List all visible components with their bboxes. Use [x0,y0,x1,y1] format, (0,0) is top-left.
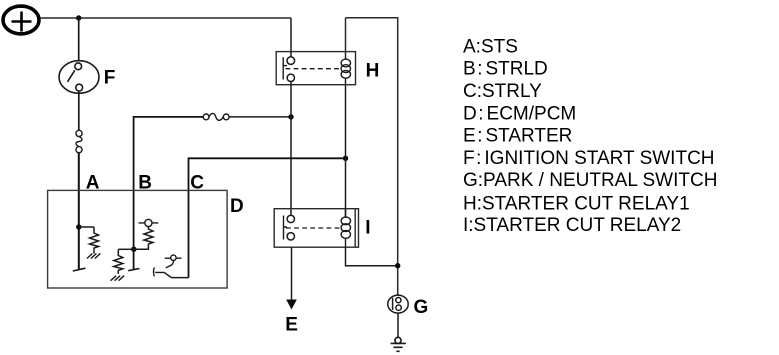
wire fuse to relay H contact wire [229,116,291,118]
park / neutral switch G [388,295,408,313]
resistor (pull-up on B) [134,227,153,250]
node junction coil return / right rail [395,263,400,268]
svg-text:E:STARTER: E:STARTER [463,125,572,146]
output transistor Q1 inside ECM [154,255,182,277]
relay H dashed link [286,68,341,70]
internal supply terminal circle on pull-up resistor [139,219,159,226]
resistor (pull-down on B) [114,249,123,274]
svg-text:E: E [285,315,298,336]
relay I coil [341,209,350,248]
legend text [463,37,717,236]
relay H contact circles [287,57,295,82]
svg-text:H:STARTER CUT RELAY1: H:STARTER CUT RELAY1 [463,194,690,215]
wire to starter E with arrowhead [291,247,293,299]
relay H coil [341,52,350,85]
node B junction inside ECM [131,247,136,252]
wire G to ground [397,313,399,337]
ground hatch under resistor A [87,254,101,259]
relay H armature [283,57,287,79]
node junction at battery rail / ignition switch [76,15,81,20]
wire battery to relay H contact (top rail) [40,17,292,19]
ignition start switch F [59,61,99,94]
starter cut relay2 I box [274,209,358,248]
relay I armature [284,216,288,240]
wire relay H contact bottom to relay I contact top [290,82,292,216]
wire junction A to resistor [79,226,94,228]
ground tick at bottom of wire B [128,269,139,271]
svg-text:A:STS: A:STS [463,37,518,58]
starter cut relay1 H box [276,52,355,85]
svg-text:H: H [366,61,380,82]
svg-text:G:PARK / NEUTRAL SWITCH: G:PARK / NEUTRAL SWITCH [463,170,717,191]
wire net B vertical with top corner to fuse [134,117,204,269]
svg-text:C:STRLY: C:STRLY [463,81,542,102]
svg-text:I:STARTER CUT RELAY2: I:STARTER CUT RELAY2 [463,215,681,236]
relay I dashed link [286,227,340,229]
wire relay I coil bottom to right rail [346,247,398,266]
ground terminal circle [395,337,401,343]
wire relay H coil bottom to relay I coil top [345,85,347,218]
resistor (pull-down on A) [90,227,99,254]
wire transistor to net C bottom [171,277,188,279]
svg-text:D: D [230,196,244,217]
wire junction down to ignition switch F [78,18,80,61]
wire top bracket to right rail [346,18,398,296]
node A junction inside ECM [76,224,81,229]
battery positive terminal symbol [3,6,39,34]
fuse on STRLD wire (horizontal) [203,113,229,120]
ground tick at bottom of wire A [73,268,86,271]
wire fuse down through ECM box (net A) [78,153,80,270]
svg-text:F:IGNITION START SWITCH: F:IGNITION START SWITCH [463,148,715,169]
svg-text:D:ECM/PCM: D:ECM/PCM [463,103,576,124]
relay I contact circles [287,215,294,240]
node junction fuse wire / relay contact wire [288,114,293,119]
wire net C vertical with top corner [189,158,346,277]
ground symbol [391,343,406,351]
fuse on STS wire (vertical) [76,130,82,153]
wire switch F to fuse [78,91,80,130]
ECM/PCM box D [48,190,228,288]
wire junction B to left resistor [118,248,134,250]
wire relay H coil top [345,18,347,52]
wire relay H contact top [290,18,292,57]
svg-text:F: F [104,68,116,89]
svg-text:G: G [414,297,429,318]
ground hatch under resistor B [111,276,125,281]
node junction C wire / relay coil wire [343,156,348,161]
svg-text:I: I [365,218,370,239]
